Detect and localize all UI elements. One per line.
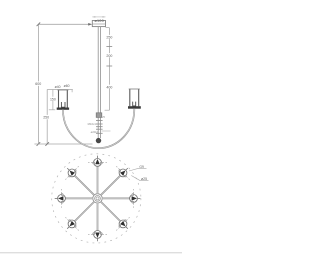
label 250 right	[105, 35, 113, 39]
wire: extension from canopy to right dim line	[106, 27, 110, 29]
right candle tube	[129, 89, 131, 106]
svg-text:ø25: ø25	[141, 177, 147, 181]
page divider rule	[0, 252, 182, 254]
arm E (plan)	[102, 197, 130, 199]
arm N (plan)	[97, 166, 99, 194]
leader line tube diameter	[131, 176, 148, 181]
tick right chain y66	[106, 65, 112, 67]
hub ring tick y129.2	[96, 128, 103, 130]
label 150	[49, 97, 56, 101]
left candle bottom holder bar	[57, 108, 69, 110]
svg-text:ø60: ø60	[64, 84, 70, 88]
svg-text:M10x1: M10x1	[88, 122, 97, 126]
wire: right dim bottom L to candle level	[105, 109, 110, 111]
candle N (plan)	[88, 156, 107, 167]
svg-text:250: 250	[43, 116, 49, 120]
arms + candles plan	[55, 156, 149, 242]
hub ring tick y124	[96, 123, 103, 125]
canopy mid line	[92, 23, 105, 25]
stem lower segment	[97, 118, 99, 139]
svg-text:400: 400	[106, 85, 112, 89]
svg-text:600: 600	[35, 82, 41, 86]
dimension candle top: line	[47, 89, 73, 91]
left candle tube	[58, 90, 60, 108]
hub inner circle	[96, 197, 99, 200]
candle NW (plan)	[65, 166, 78, 179]
arm S (plan)	[97, 203, 99, 231]
leader line G9	[129, 168, 147, 171]
hub ring tick y126.7	[96, 126, 103, 128]
leader right of hub	[102, 130, 111, 132]
stem bottom hub block	[96, 113, 102, 118]
hub outer circle	[93, 194, 102, 203]
arrowhead at canopy left	[88, 23, 92, 26]
svg-text:ø40: ø40	[55, 85, 61, 89]
svg-text:G9: G9	[139, 165, 144, 169]
svg-text:200: 200	[106, 54, 112, 58]
label 250	[42, 115, 51, 119]
stem (central rod, double line)	[97, 27, 99, 113]
candle SE (plan)	[116, 217, 129, 230]
arm SE (plan)	[101, 202, 121, 222]
wire: bottom extension line	[34, 143, 92, 145]
label 200 right	[105, 53, 113, 57]
slash tick bottom of 600 line	[37, 142, 41, 146]
ticks candle top dim	[71, 90, 73, 93]
right candle bottom holder bar	[128, 106, 141, 109]
canopy	[92, 21, 105, 27]
label 400 right	[105, 85, 113, 89]
hub ring tick y120.5	[96, 120, 103, 122]
label 600	[34, 81, 42, 85]
svg-text:150: 150	[50, 97, 56, 101]
svg-text:25: 25	[102, 115, 106, 119]
slash tick bottom of 250 dim	[45, 142, 49, 146]
left candle socket (G9 lamp)	[61, 102, 65, 107]
candle E (plan)	[130, 189, 141, 208]
candle W (plan)	[55, 189, 66, 208]
tick bottom of 150 dim	[49, 109, 55, 111]
svg-text:ø100: ø100	[94, 19, 103, 23]
arm NW (plan)	[75, 176, 95, 196]
svg-text:250: 250	[106, 36, 112, 40]
svg-text:ø20x1: ø20x1	[91, 130, 99, 134]
hub middle circle	[95, 196, 101, 202]
right candle socket (G9 lamp)	[133, 102, 136, 106]
candle SW (plan)	[65, 217, 78, 230]
arm W (plan)	[65, 197, 93, 199]
dimension line 600 (left vertical)	[37, 24, 39, 144]
ball finial	[96, 138, 101, 143]
hub ring tick y133.3	[96, 132, 103, 134]
dimension line 250 (lower left vertical)	[46, 90, 48, 145]
candle S (plan)	[88, 231, 107, 242]
dimension line above canopy	[92, 16, 105, 18]
arm SW (plan)	[75, 202, 95, 222]
arm NE (plan)	[101, 176, 121, 196]
candle NE (plan)	[116, 166, 129, 179]
wire: top extension line from left dim to canopy	[38, 23, 88, 25]
tick right chain y46.5	[106, 46, 112, 48]
dashed circle (overall diameter)	[52, 154, 141, 243]
dimension line right chain	[108, 28, 110, 111]
slash tick top of 600 line	[37, 23, 41, 27]
dimension line 150 (candle height)	[52, 90, 54, 110]
arm bow (front view, left+right arms)	[63, 109, 134, 148]
